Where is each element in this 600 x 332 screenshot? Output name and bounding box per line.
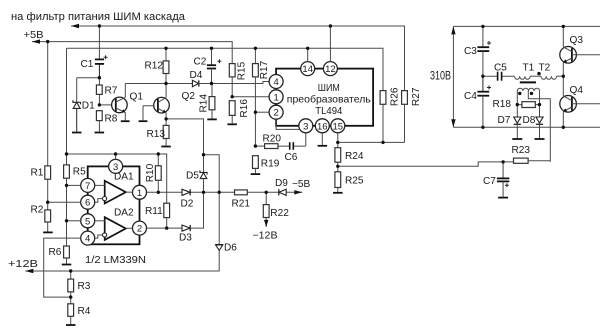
svg-text:6: 6 [85, 198, 90, 209]
op-amp DA2 triangle [103, 217, 126, 240]
svg-text:R23: R23 [512, 145, 531, 156]
zener D1 [73, 100, 81, 131]
wire: PWM filter feed line y=26 [71, 26, 405, 91]
wire: middle line y=76.2 with C5 [483, 75, 515, 77]
node: junction pin12 feed [329, 24, 332, 27]
wire: T2 to Q3/Q4 node [557, 75, 564, 77]
pin 16 of TL494 [315, 119, 329, 133]
pin 3 of TL494 [299, 119, 313, 133]
node: junction R1/R2 pin6 [46, 201, 49, 204]
ground: R19 [251, 173, 261, 175]
svg-text:преобразователь: преобразователь [287, 94, 371, 106]
resistor R11 [164, 203, 170, 228]
node: junction R22 top [265, 191, 268, 194]
wire: +12V line [25, 250, 219, 271]
ground: R14 [207, 118, 217, 120]
ground: R8 [95, 132, 105, 134]
node: junction R3 top [69, 269, 72, 272]
svg-text:R13: R13 [147, 129, 166, 140]
svg-text:R8: R8 [105, 114, 118, 125]
node: junction rail154 R10 [157, 152, 160, 155]
svg-text:R10: R10 [145, 163, 156, 182]
zener D5 [200, 170, 207, 192]
wire: bottom right rail y=127.3 [453, 126, 600, 128]
node: junction C1 top [98, 24, 101, 27]
resistor R26 [380, 91, 386, 143]
transistor Q4 [560, 76, 600, 127]
inductor T1 primary winding [515, 76, 531, 79]
wire: D6 vertical [218, 192, 220, 244]
svg-text:R15: R15 [236, 61, 247, 80]
ground: D7 [512, 138, 522, 140]
svg-text:R11: R11 [145, 206, 163, 217]
svg-text:−12В: −12В [253, 231, 278, 242]
wire: pin6 to DA1 - input bubble [95, 199, 103, 203]
node: arrow +12V [25, 269, 33, 273]
svg-text:Q1: Q1 [130, 92, 144, 103]
node: junction R18 right [538, 103, 541, 106]
wire: 310V dimension line with arrows [451, 26, 455, 127]
wire: secondary center tap jog [528, 91, 550, 162]
resistor R22 [263, 192, 269, 227]
resistor R8 [96, 111, 102, 132]
IC U1: TL494 box [276, 69, 373, 126]
resistor R17 [253, 48, 259, 146]
node: junction R26 bottom [381, 141, 384, 144]
node: junction C3 top [481, 25, 484, 28]
resistor R24 [335, 148, 341, 172]
node: junction R12 bottom rail [164, 82, 167, 85]
resistor R7 [96, 78, 102, 105]
ground: R6 [62, 264, 72, 266]
resistor R13 [163, 119, 169, 146]
resistor R6 [64, 246, 70, 264]
wire: DA1 output to pin1 [126, 191, 133, 193]
wire: +5V distribution rail y=48.3 [67, 48, 384, 90]
svg-text:R6: R6 [49, 247, 62, 258]
node: junction C4 bottom rail [481, 126, 484, 129]
capacitor C5 [498, 72, 502, 81]
wire: D5/D6 branch line y=154.7 [204, 155, 220, 193]
svg-text:R18: R18 [493, 99, 512, 110]
svg-text:C2: C2 [194, 56, 207, 67]
resistor R16 [229, 101, 235, 124]
node: arrow to PWM filter [71, 24, 79, 28]
wire: pin5 to DA2 + input [95, 220, 105, 222]
inductor T secondary winding [517, 88, 539, 91]
diode D7 [514, 117, 521, 138]
ground: R25 [333, 192, 343, 194]
svg-text:3: 3 [303, 121, 308, 132]
wire: Q2 emitter branch down to D5/D6 [166, 119, 203, 172]
resistor R23 [514, 158, 551, 163]
svg-text:R14: R14 [199, 94, 210, 113]
svg-text:R20: R20 [263, 134, 282, 145]
wire: pin16 ground stub [321, 133, 323, 145]
wire: R24/R25 junction long line to R23 [338, 162, 514, 166]
svg-text:DA2: DA2 [114, 208, 134, 219]
svg-text:R25: R25 [345, 175, 364, 186]
svg-text:R1: R1 [31, 168, 44, 179]
diode D6 [215, 245, 223, 251]
wire: D1 vertical [76, 78, 78, 103]
node: junction Q3 emitter / T2 [562, 75, 565, 78]
node: junction C3/C4/C5 [481, 75, 484, 78]
svg-text:2: 2 [273, 108, 278, 119]
pin 1 of LM339 [133, 185, 147, 199]
pin 15 of TL494 [331, 119, 345, 133]
wire: R1/R2 junction to pin6 [48, 201, 81, 203]
pin 6 of LM339 [81, 195, 95, 209]
svg-text:5: 5 [85, 216, 90, 227]
ground: D8 [535, 138, 545, 140]
pin 7 of LM339 [81, 178, 95, 192]
ground: pin 16 [318, 145, 328, 147]
resistor R5 [64, 165, 70, 246]
resistor R25 [335, 172, 341, 192]
wire: C1 branch x=99.4 [98, 26, 100, 59]
transistor Q3 [560, 26, 600, 76]
resistor R21 [235, 190, 248, 195]
capacitor C3 [477, 26, 491, 76]
wire: pin4 to DA2 - input bubble [95, 235, 103, 238]
resistor R18 [517, 102, 539, 108]
svg-text:1: 1 [273, 92, 278, 103]
wire: pin2 output line y=228.1 [147, 192, 204, 228]
diode D2 [182, 189, 190, 195]
transistor Q1 [112, 84, 128, 121]
svg-text:R12: R12 [145, 61, 164, 72]
ground: R16 [227, 123, 237, 125]
wire: top right rail y=26.4 [453, 25, 600, 27]
svg-text:D6: D6 [224, 243, 237, 254]
svg-text:7: 7 [85, 181, 90, 192]
svg-text:4: 4 [273, 77, 278, 88]
pin 2 of LM339 [133, 221, 147, 235]
ground: Q1 emitter [121, 120, 130, 122]
pin 2 of TL494 [269, 105, 283, 119]
svg-text:1: 1 [137, 188, 142, 199]
node: T2 phasing dot [537, 72, 540, 75]
node: junction pin14 feed [306, 47, 309, 50]
node: junction Q1 base [98, 103, 101, 106]
svg-text:Q3: Q3 [570, 35, 584, 46]
svg-text:T2: T2 [539, 63, 551, 74]
node: arrow -5V [294, 190, 302, 194]
node: secondary phasing dot right [530, 92, 533, 95]
svg-text:1/2 LM339N: 1/2 LM339N [85, 255, 146, 266]
svg-text:16: 16 [317, 121, 328, 132]
wire: pin 14 up to +5V rail [307, 48, 309, 61]
resistor R2 [45, 210, 51, 232]
node: junction R18 left [516, 103, 519, 106]
node: junction R11 bottom [165, 226, 168, 229]
node: junction R23/C7 [501, 160, 504, 163]
wire: comparator output line y=192.3 [147, 191, 303, 193]
node: junction R12 top [164, 47, 167, 50]
svg-text:4: 4 [85, 234, 90, 245]
svg-text:C7: C7 [483, 176, 496, 187]
svg-text:D5: D5 [186, 171, 199, 182]
pin 5 of LM339 [81, 214, 95, 228]
svg-text:D3: D3 [179, 233, 192, 244]
wire: to pin7 [67, 184, 81, 186]
node: junction pin2 wire [254, 111, 257, 114]
node: junction Q4 emitter rail [562, 126, 565, 129]
node: junction D5 top [202, 153, 205, 156]
wire: LM339 pin4 line to +12V divider [44, 238, 81, 297]
svg-text:R17: R17 [259, 60, 270, 79]
svg-text:C4: C4 [464, 91, 477, 102]
wire: rail y=83.5 after D4, jog into pin 4 [199, 82, 269, 84]
node: junction R24/R25 [336, 165, 339, 168]
resistor R19 [253, 156, 259, 174]
wire: left frame vertical x=66.5 down to LM339 rail [66, 48, 68, 165]
svg-text:C5: C5 [494, 63, 507, 74]
svg-text:R7: R7 [105, 86, 118, 97]
svg-text:−5В: −5В [292, 179, 311, 190]
wire: D1 branch horizontal y=77.7 [77, 77, 100, 79]
ground: C7 [498, 197, 508, 199]
node: secondary phasing dot left [518, 92, 521, 95]
wire: junction row y=142.4 to R26/R27 [338, 141, 405, 143]
svg-text:3: 3 [113, 162, 118, 173]
pin 12 of TL494 [323, 62, 337, 76]
op-amp DA1 triangle [103, 181, 126, 204]
svg-text:12: 12 [325, 64, 336, 75]
svg-text:R4: R4 [78, 306, 91, 317]
node: junction pin15 R24 [336, 141, 339, 144]
wire: +5V rail y=41.6 [32, 42, 232, 64]
svg-text:на фильтр питания ШИМ каскада: на фильтр питания ШИМ каскада [11, 11, 186, 23]
svg-text:T1: T1 [523, 63, 535, 74]
capacitor C2 [207, 48, 222, 83]
wire: pin 12 up to filter line [329, 26, 331, 62]
svg-text:D4: D4 [190, 70, 203, 81]
resistor R4 [68, 304, 74, 324]
svg-text:R26: R26 [389, 87, 400, 106]
svg-text:R22: R22 [270, 208, 289, 219]
ground: R4 [66, 324, 76, 326]
svg-text:310В: 310В [430, 71, 451, 83]
wire: secondary left end down [516, 91, 518, 117]
ground: R13 [161, 146, 171, 148]
inductor T2 winding [541, 76, 557, 79]
diode D9 [279, 189, 286, 195]
svg-text:D1: D1 [82, 101, 95, 112]
wire: pin 15 down to R24 [337, 133, 339, 148]
svg-text:C6: C6 [285, 152, 298, 163]
svg-text:R27: R27 [411, 87, 422, 106]
wire: pin7 to DA1 + input [95, 184, 105, 186]
node: junction C1 bottom [98, 76, 101, 79]
svg-text:R2: R2 [31, 205, 44, 216]
wire: secondary right end down [539, 91, 541, 117]
svg-text:+5В: +5В [24, 30, 44, 41]
wire: between windings [530, 75, 541, 77]
pin 1 of TL494 [269, 90, 283, 104]
diode D4 [192, 80, 198, 86]
capacitor C6 [290, 142, 294, 150]
resistor R1 [45, 42, 51, 210]
node: junction R17 top [254, 47, 257, 50]
svg-text:R5: R5 [73, 167, 86, 178]
svg-text:2: 2 [137, 224, 142, 235]
node: junction R3/R4 [69, 295, 72, 298]
ground: R2 [43, 231, 53, 233]
resistor R12 [163, 48, 169, 83]
ground: Q2 base [139, 120, 148, 122]
pin 3 of LM339 [109, 159, 123, 173]
resistor R10 [155, 154, 161, 192]
node: junction R1 top [46, 40, 49, 43]
svg-text:D8: D8 [523, 115, 536, 126]
pin 4 of LM339 [81, 231, 95, 245]
pin 4 of TL494 [269, 75, 283, 89]
ground: D1 [72, 132, 82, 134]
node: junction D2 out [202, 191, 205, 194]
node: junction C2 top [210, 47, 213, 50]
svg-text:Q2: Q2 [182, 91, 196, 102]
node: junction C2 bottom rail [210, 82, 213, 85]
svg-text:D9: D9 [275, 178, 288, 189]
pin 14 of TL494 [301, 62, 315, 76]
resistor R14 [209, 84, 215, 119]
svg-text:D7: D7 [498, 115, 511, 126]
node: junction R15 bottom [231, 95, 234, 98]
node: junction rail154 pin3 [114, 152, 117, 155]
LM339 comparator block DA [88, 166, 140, 244]
node: junction D6 top [218, 191, 221, 194]
node: arrow +5V [32, 39, 40, 43]
wire: to pin5 [67, 220, 81, 222]
wire: TL494 pin2 to pin3 feedback [276, 119, 300, 129]
capacitor C4 [477, 76, 491, 127]
wire: Q1 base [99, 104, 112, 106]
svg-text:Q4: Q4 [570, 85, 584, 96]
svg-text:R16: R16 [239, 99, 250, 118]
svg-text:14: 14 [302, 64, 313, 75]
wire: LM339 supply rail y=154 [67, 154, 167, 203]
node: junction Q3 collector top [562, 25, 565, 28]
node: junction rail154 left [65, 152, 68, 155]
node: junction R5 pin7 [65, 184, 68, 187]
svg-text:R19: R19 [261, 158, 280, 169]
capacitor C7 [497, 162, 509, 197]
svg-text:15: 15 [333, 121, 344, 132]
transistor Q2 [154, 84, 170, 119]
node: junction R20 left [254, 144, 257, 147]
svg-text:C1: C1 [81, 59, 94, 70]
wire: to TL494 pin 2 [255, 111, 268, 113]
svg-text:R21: R21 [232, 199, 251, 210]
diode D8 [536, 117, 543, 138]
wire: DA2 output to pin2 [126, 227, 133, 229]
svg-text:ШИМ: ШИМ [318, 83, 340, 94]
svg-text:+12В: +12В [8, 259, 38, 270]
resistor R3 [68, 271, 74, 304]
wire: R20/C6 line to pin 3 [255, 134, 305, 147]
svg-text:R24: R24 [345, 151, 364, 162]
resistor R20 [265, 144, 278, 149]
node: junction R5/R6 pin5 [65, 219, 68, 222]
node: arrow -12V down [264, 220, 268, 227]
capacitor C1 [95, 55, 108, 77]
resistor R27 [402, 91, 408, 143]
node: transformer core bar [520, 81, 536, 83]
wire: LM339 pin3 supply stub [115, 154, 117, 159]
wire: R15 junction to TL494 pin 1 [232, 96, 269, 98]
resistor R15 [229, 64, 235, 97]
wire: collector rail y=83.5 from Q1 to TL494 pin4 [125, 83, 192, 85]
svg-text:R3: R3 [78, 281, 91, 292]
node: junction Q2 emitter [164, 117, 167, 120]
svg-text:D2: D2 [181, 199, 194, 210]
diode D3 [182, 225, 190, 231]
node: junction R10 bottom output [157, 191, 160, 194]
wire: Q2 base to grounded stub [143, 106, 154, 121]
svg-text:C3: C3 [464, 46, 477, 57]
svg-text:TL494: TL494 [315, 106, 342, 117]
